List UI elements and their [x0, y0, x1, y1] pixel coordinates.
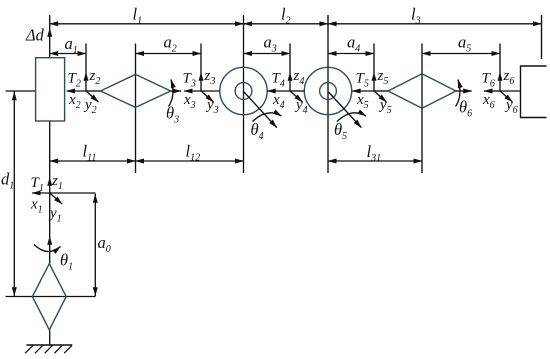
revolute joint 4 inner [235, 83, 252, 100]
label T6 [482, 71, 495, 90]
label delta-d [25, 26, 45, 45]
extension line l3 right end [541, 15, 543, 59]
link frame2 to joint3 [86, 90, 101, 92]
base line through joint 1 [6, 296, 96, 298]
dimension l2 [244, 23, 329, 25]
label a2 [164, 33, 177, 55]
label y2 [83, 97, 97, 116]
y3 axis arrow [201, 91, 214, 102]
dimension a4 [328, 53, 374, 55]
label theta4 [251, 120, 264, 142]
z4 arrowhead [288, 72, 293, 81]
z6 arrowhead [498, 72, 503, 81]
svg-text:Δd: Δd [25, 26, 45, 45]
joint6 twist axis arrow [456, 90, 472, 92]
label l31 [367, 142, 382, 164]
extension line through revolute joint 4 [243, 15, 245, 173]
diamond joint 3 [101, 74, 171, 107]
y4 axis arrow [290, 91, 303, 102]
label a1 [65, 34, 78, 56]
label x4 [272, 92, 285, 111]
extension line frame6 / z6 axis [499, 44, 501, 92]
dimension l12 [136, 160, 244, 162]
z5 arrowhead [372, 72, 377, 81]
end effector bracket [521, 66, 547, 118]
x4 axis arrow [267, 90, 290, 92]
label a4 [347, 33, 360, 55]
x3 axis arrow [184, 90, 201, 92]
link frame5 to joint6 [374, 90, 388, 92]
stem below joint 1 [49, 330, 51, 345]
label y4 [294, 97, 308, 116]
base joint axis arrowhead [47, 236, 52, 245]
dimension l1 [50, 23, 244, 25]
diamond joint 6 [388, 74, 456, 108]
label x3 [183, 92, 196, 111]
label T5 [356, 71, 369, 90]
label x5 [356, 92, 369, 111]
label y6 [504, 97, 518, 116]
label l1 [133, 5, 143, 27]
ground hatching [25, 345, 72, 353]
theta3 rotation arc [169, 80, 173, 107]
prismatic slider joint 2 [36, 58, 65, 121]
label z4 [293, 68, 305, 87]
theta5 rotation arc [337, 113, 366, 122]
y6 axis arrow [500, 91, 513, 102]
extension line frame3 / z3 axis [200, 44, 202, 92]
label a5 [458, 33, 471, 55]
label l12 [186, 142, 201, 164]
label z1 [51, 173, 63, 192]
label T2 [68, 71, 81, 90]
label x1 [30, 197, 43, 216]
label a0 [98, 233, 111, 255]
extension line through diamond joint 3 [135, 44, 137, 174]
connector frame1 to a0 [50, 192, 96, 194]
main axis below slider / z1 axis [49, 121, 51, 264]
label z5 [377, 68, 389, 87]
label x6 [482, 92, 495, 111]
ground line [27, 344, 73, 346]
z3 arrowhead [199, 72, 204, 81]
a0 top arrowhead [93, 194, 98, 203]
d1 top arrowhead [12, 92, 17, 101]
dimension a0 [94, 194, 96, 297]
label T4 [272, 71, 285, 90]
revolute joint 5 outer [304, 67, 351, 114]
theta6 rotation arc [456, 80, 460, 107]
extension line above base joint [49, 15, 51, 58]
dimension a5 [422, 53, 500, 55]
arrow delta-d [47, 28, 52, 37]
label l3 [411, 5, 421, 27]
dimension l3 [328, 23, 542, 25]
d1 bottom arrowhead [12, 287, 17, 296]
y1 axis arrow [50, 193, 63, 204]
label T3 [183, 71, 196, 90]
label theta3 [166, 104, 179, 126]
label y5 [378, 97, 392, 116]
label z3 [204, 68, 216, 87]
dimension d1 [13, 91, 15, 297]
extension line through diamond joint 6 [421, 44, 423, 174]
x6 axis arrow [484, 90, 500, 92]
theta4 axis diagonal arrow [244, 92, 277, 128]
revolute joint 5 inner [320, 83, 337, 100]
z2 arrowhead [84, 72, 89, 81]
label y1 [48, 206, 62, 225]
label l11 [83, 142, 97, 164]
theta1 rotation arc [34, 245, 61, 252]
y5 axis arrow [374, 91, 387, 102]
label theta1 [60, 251, 73, 273]
label y3 [205, 97, 219, 116]
label d1 [1, 170, 14, 192]
dimension l31 [328, 160, 422, 162]
theta4 rotation arc [253, 113, 282, 122]
horizontal extension left of slider [6, 90, 36, 92]
joint3 twist axis arrow head [171, 90, 181, 92]
y2 axis arrow [86, 91, 99, 102]
dimension a3 [244, 53, 291, 55]
dimension a1 [50, 53, 86, 55]
x1 axis arrow [32, 192, 50, 194]
revolute joint 4 outer [220, 67, 267, 114]
dimension l11 [50, 160, 136, 162]
x5 axis arrow [352, 90, 374, 92]
label z2 [89, 68, 101, 87]
link frame6 to end effector [500, 90, 521, 92]
dimension a2 [136, 53, 202, 55]
extension line frame2 / z2 axis [85, 44, 87, 92]
x2 axis arrow [67, 90, 87, 92]
label a3 [264, 33, 277, 55]
base diamond joint 1 [32, 264, 66, 330]
a0 bottom arrowhead [93, 287, 98, 296]
label theta5 [334, 120, 347, 142]
link frame3 to joint4 [201, 90, 220, 92]
z1 arrowhead [47, 177, 52, 186]
label z6 [503, 68, 515, 87]
label T1 [31, 175, 44, 194]
label l2 [281, 5, 291, 27]
label theta6 [459, 98, 472, 120]
link frame4 to joint5 [290, 90, 304, 92]
label x2 [68, 92, 81, 111]
extension line frame4 / z4 axis [289, 44, 291, 92]
theta5 axis diagonal arrow [329, 92, 362, 128]
extension line frame5 / z5 axis [373, 44, 375, 92]
extension line through revolute joint 5 [327, 15, 329, 173]
